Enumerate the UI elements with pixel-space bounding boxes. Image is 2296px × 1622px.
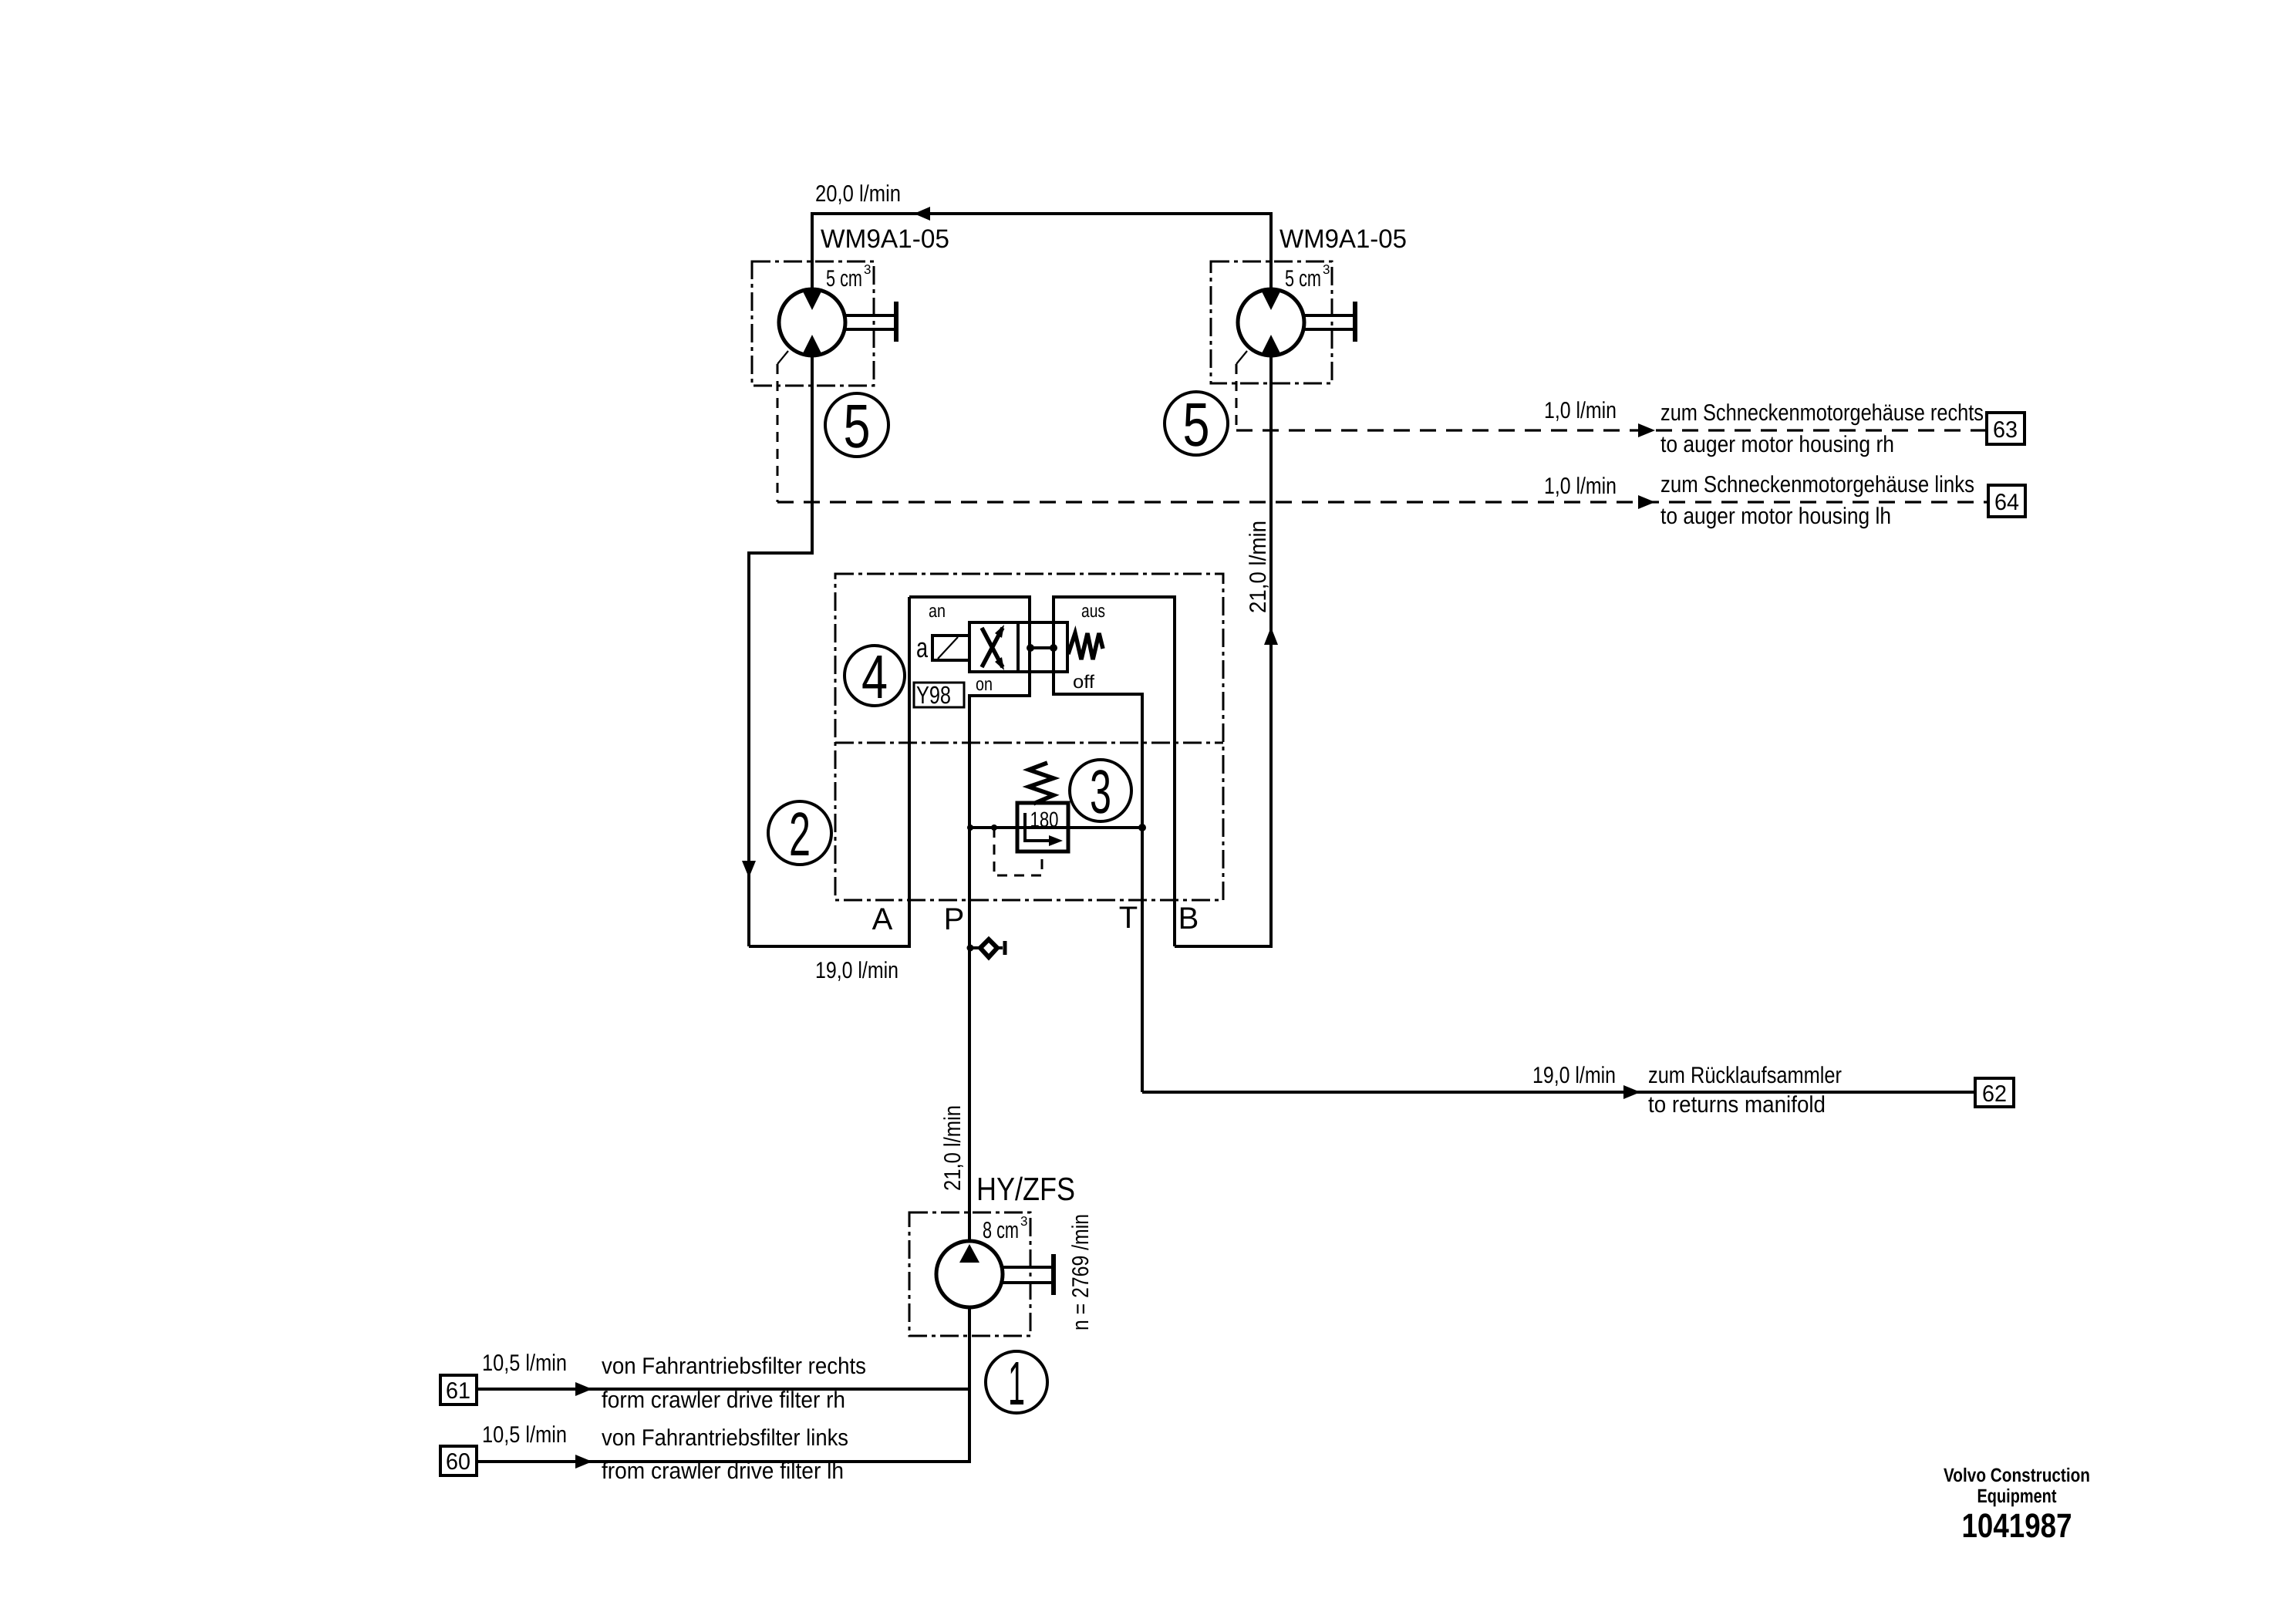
pump shaft [1001, 1267, 1054, 1283]
svg-text:to auger motor housing rh: to auger motor housing rh [1660, 432, 1894, 457]
svg-text:zum Schneckenmotorgehäuse link: zum Schneckenmotorgehäuse links [1660, 472, 1974, 497]
wire step left [749, 551, 814, 555]
svg-text:Equipment: Equipment [1977, 1485, 2058, 1507]
pump enclosure dash-dot box [909, 1212, 1030, 1336]
balloon 5 right [1165, 392, 1228, 455]
motor M1 triangle bottom [802, 335, 822, 355]
svg-text:3: 3 [864, 262, 871, 277]
wire T out to 62 [1142, 1091, 1975, 1094]
terminal box 64 [1988, 485, 2025, 517]
valve block section divider dash-dot [835, 742, 1223, 744]
svg-text:2: 2 [789, 800, 811, 868]
wire from 61 [477, 1388, 971, 1391]
test point diamond [980, 939, 997, 957]
svg-text:10,5 l/min: 10,5 l/min [482, 1422, 567, 1448]
valve block outer dash-dot enclosure [835, 574, 1223, 900]
svg-text:3: 3 [1323, 262, 1330, 277]
wire motor M1 top port [811, 212, 814, 292]
svg-text:19,0 l/min: 19,0 l/min [1532, 1063, 1616, 1088]
svg-text:off: off [1073, 672, 1094, 693]
motor M2 triangle top [1261, 290, 1281, 310]
motor M2 shaft [1303, 315, 1355, 329]
motor M2 case drain diagonal [1236, 351, 1247, 364]
arrow on 60 wire [575, 1455, 592, 1469]
wire motor M2 top port [1269, 212, 1273, 292]
pump triangle [959, 1244, 979, 1263]
svg-text:on: on [976, 674, 993, 695]
balloon 3 [1070, 760, 1131, 821]
junction dot T [1138, 824, 1146, 831]
terminal box 62 [1975, 1078, 2014, 1107]
relief valve line P to T [969, 826, 1142, 829]
svg-text:63: 63 [1993, 417, 2018, 443]
wire P line [968, 694, 971, 1242]
svg-text:5 cm: 5 cm [826, 266, 862, 292]
Y98 tag box [914, 683, 964, 707]
relief valve pilot dashed line [994, 828, 1042, 875]
svg-text:Y98: Y98 [916, 681, 951, 709]
test point end bar [1003, 941, 1007, 955]
wire 21,0 riser to motor M2 [1269, 353, 1273, 946]
svg-text:to auger motor housing lh: to auger motor housing lh [1660, 504, 1891, 529]
motor M1 case drain diagonal [777, 351, 788, 364]
an routing box [909, 597, 1030, 696]
wire A riser [908, 597, 911, 948]
balloon 4 [845, 646, 905, 706]
svg-text:5: 5 [1183, 390, 1210, 459]
valve blocked symbol crossbar [1030, 646, 1054, 649]
svg-text:3: 3 [1020, 1214, 1027, 1229]
relief valve internal arrow [1025, 813, 1052, 841]
wire motor M1 bottom port [811, 353, 814, 553]
junction dot pilot [991, 824, 997, 831]
arrow on T out line [1623, 1085, 1640, 1099]
arrow on drain 64 line [1638, 495, 1655, 509]
svg-text:62: 62 [1982, 1081, 2007, 1107]
balloon 1 [986, 1351, 1047, 1413]
motor M1 circle [779, 289, 845, 356]
svg-text:20,0 l/min: 20,0 l/min [815, 181, 901, 207]
svg-text:1: 1 [1008, 1349, 1025, 1418]
svg-text:HY/ZFS: HY/ZFS [976, 1171, 1075, 1207]
motor M2 triangle bottom [1261, 335, 1281, 355]
test point stub [969, 946, 1003, 949]
terminal box 61 [440, 1375, 477, 1404]
terminal box 63 [1987, 413, 2025, 444]
wire 20,0 l/min top line [812, 212, 1271, 215]
svg-text:von Fahrantriebsfilter links: von Fahrantriebsfilter links [602, 1425, 848, 1451]
balloon 5 left [825, 393, 888, 457]
svg-text:form crawler drive filter rh: form crawler drive filter rh [602, 1388, 845, 1413]
svg-text:von Fahrantriebsfilter rechts: von Fahrantriebsfilter rechts [602, 1354, 866, 1379]
svg-text:21,0 l/min: 21,0 l/min [1246, 521, 1271, 613]
motor M1 case drain dashed vertical [777, 364, 779, 502]
svg-text:61: 61 [446, 1378, 470, 1404]
svg-text:3: 3 [1090, 757, 1111, 826]
svg-text:T: T [1119, 901, 1138, 935]
arrow on 61 wire [575, 1382, 592, 1396]
wire B bottom link [1175, 945, 1273, 948]
motor M2 case drain dashed vertical [1236, 364, 1238, 430]
svg-text:P: P [944, 902, 965, 936]
valve body divider [1017, 622, 1020, 672]
svg-text:zum Schneckenmotorgehäuse rech: zum Schneckenmotorgehäuse rechts [1660, 400, 1984, 426]
motor M1 shaft [844, 315, 896, 329]
svg-text:60: 60 [446, 1449, 470, 1475]
solenoid valve Y98 body [969, 622, 1067, 672]
svg-text:to returns manifold: to returns manifold [1648, 1092, 1826, 1118]
motor M2 enclosure dash-dot box [1211, 261, 1332, 383]
relief valve spring [1029, 763, 1054, 804]
svg-text:an: an [929, 601, 946, 622]
motor M2 circle [1238, 289, 1304, 356]
wire from 60 [477, 1460, 971, 1463]
wire bottom to A [749, 945, 909, 948]
svg-text:64: 64 [1994, 490, 2019, 515]
case drain line to 64 [777, 501, 1988, 503]
solenoid actuator a [932, 636, 969, 660]
arrow left on top line [914, 207, 930, 221]
svg-text:1,0 l/min: 1,0 l/min [1544, 474, 1617, 499]
svg-text:5: 5 [844, 392, 871, 460]
svg-text:1041987: 1041987 [1962, 1507, 2072, 1545]
case drain line to 63 [1236, 429, 1987, 431]
valve crossed arrows left square [982, 628, 1003, 667]
svg-text:Volvo Construction: Volvo Construction [1944, 1465, 2090, 1486]
svg-text:4: 4 [861, 642, 888, 711]
motor M1 triangle top [802, 290, 822, 310]
svg-text:B: B [1178, 902, 1199, 936]
svg-text:180: 180 [1030, 808, 1059, 831]
svg-text:zum Rücklaufsammler: zum Rücklaufsammler [1648, 1063, 1842, 1088]
svg-text:WM9A1-05: WM9A1-05 [821, 224, 949, 254]
svg-text:19,0 l/min: 19,0 l/min [815, 958, 899, 983]
wire B riser [1173, 595, 1176, 946]
relief valve body [1017, 803, 1068, 851]
wire T line [1141, 693, 1144, 1092]
balloon 2 [768, 801, 831, 865]
motor M1 enclosure dash-dot box [752, 261, 874, 386]
svg-text:5 cm: 5 cm [1285, 266, 1321, 292]
pump circle [936, 1241, 1003, 1307]
svg-text:21,0 l/min: 21,0 l/min [940, 1105, 966, 1191]
arrow up on 21,0 riser [1264, 627, 1278, 645]
aus routing box [1054, 597, 1175, 694]
svg-text:n = 2769 /min: n = 2769 /min [1068, 1214, 1094, 1330]
svg-text:a: a [916, 632, 929, 663]
valve return spring [1068, 633, 1103, 659]
junction dot P [967, 824, 973, 831]
arrow on drain 63 line [1638, 423, 1655, 437]
svg-text:WM9A1-05: WM9A1-05 [1279, 224, 1407, 254]
arrow down on left riser [742, 861, 756, 878]
wire left riser down [747, 551, 750, 946]
svg-text:1,0 l/min: 1,0 l/min [1544, 398, 1617, 423]
svg-text:8 cm: 8 cm [983, 1218, 1019, 1243]
wire pump bottom [968, 1307, 971, 1462]
svg-text:aus: aus [1081, 601, 1105, 622]
svg-text:from crawler drive filter lh: from crawler drive filter lh [602, 1458, 844, 1484]
terminal box 60 [440, 1446, 477, 1475]
svg-text:10,5 l/min: 10,5 l/min [482, 1351, 567, 1376]
junction dot test point [967, 945, 974, 952]
svg-text:A: A [872, 902, 893, 936]
